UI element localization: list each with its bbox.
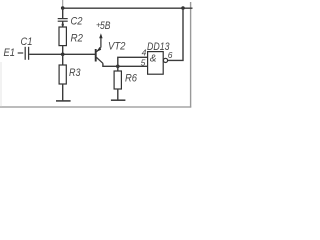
wire: C1 to transistor base (29, 53, 95, 55)
resistor R6 (114, 71, 121, 89)
wire: R3 to ground (62, 84, 64, 101)
svg-text:R2: R2 (71, 33, 84, 45)
svg-text:5: 5 (141, 57, 146, 67)
resistor R3 (59, 65, 66, 84)
svg-text:C1: C1 (21, 36, 33, 48)
ground (R3) (56, 100, 71, 102)
frame bottom border (0, 106, 191, 108)
wire: C2 bottom plate to R2 (62, 21, 64, 27)
wire: node up to pin 4 (118, 57, 148, 66)
wire: emitter riser to +5B arrow (100, 36, 102, 47)
svg-text:&: & (150, 53, 157, 64)
wire: top feedback rail (63, 7, 193, 9)
wire: E1 stub (18, 52, 24, 54)
wire: node to R6 (117, 66, 119, 71)
svg-text:6: 6 (168, 50, 173, 60)
svg-text:4: 4 (142, 47, 147, 57)
svg-text:C2: C2 (71, 16, 83, 28)
capacitor C2 (58, 19, 68, 26)
svg-text:E1: E1 (4, 47, 16, 59)
power arrow +5B (99, 33, 102, 38)
wire: rail to C2 top plate (62, 8, 64, 18)
node: rail-C2 junction (61, 6, 65, 10)
capacitor C1 (25, 47, 28, 60)
inversion bubble pin 6 (163, 58, 167, 62)
node: base-R2-R3 junction (61, 53, 65, 57)
svg-text:VT2: VT2 (108, 41, 126, 53)
wire: cropped stub above top rail (62, 0, 64, 8)
frame left border (faint) (0, 62, 2, 107)
wire: R2 bottom to base node (62, 46, 64, 55)
frame right border (190, 2, 192, 108)
wire: node to R3 (62, 54, 64, 65)
wire: R6 to ground (117, 89, 119, 100)
ground (R6) (111, 99, 126, 101)
wire: node to pin 5 (118, 65, 148, 67)
node: rail-output junction (181, 6, 185, 10)
node: collector-R6-gate junction (116, 65, 120, 69)
transistor VT2 (96, 47, 103, 63)
resistor R2 (59, 27, 66, 46)
svg-text:R3: R3 (69, 67, 81, 79)
wire: gate output to rail (168, 8, 183, 60)
wire: collector to output node (103, 63, 118, 66)
svg-text:DD13: DD13 (147, 41, 170, 53)
logic gate DD13 (148, 52, 164, 75)
svg-text:R6: R6 (125, 73, 138, 85)
svg-text:5B: 5B (100, 20, 111, 32)
